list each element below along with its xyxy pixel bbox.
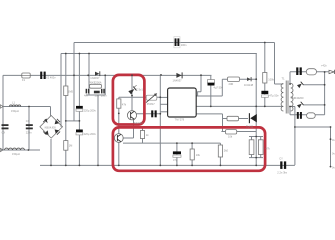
- svg-text:220n: 220n: [26, 131, 32, 135]
- svg-text:1N4148: 1N4148: [244, 83, 254, 87]
- svg-text:CX: CX: [26, 119, 30, 123]
- svg-text:150µH: 150µH: [12, 152, 20, 156]
- svg-text:CX: CX: [2, 131, 6, 135]
- svg-text:20R: 20R: [229, 82, 234, 86]
- svg-text:2.2n 3kv: 2.2n 3kv: [277, 170, 288, 174]
- svg-text:10k: 10k: [228, 134, 233, 138]
- svg-text:220µ 200v: 220µ 200v: [84, 109, 97, 113]
- svg-text:2k0: 2k0: [224, 149, 229, 153]
- svg-text:4µ7 50v: 4µ7 50v: [214, 86, 224, 90]
- svg-text:TL431: TL431: [246, 124, 254, 128]
- svg-text:150µH: 150µH: [11, 109, 19, 113]
- svg-text:C 5v1: C 5v1: [136, 88, 143, 92]
- svg-text:1N4937: 1N4937: [173, 78, 183, 82]
- svg-text:47k: 47k: [122, 102, 127, 106]
- svg-text:CY: CY: [279, 156, 283, 160]
- svg-text:T2C945: T2C945: [134, 121, 144, 125]
- svg-text:1N4937: 1N4937: [90, 76, 100, 80]
- svg-text:KBU4J08: KBU4J08: [45, 125, 57, 129]
- svg-text:+42v: +42v: [321, 63, 327, 67]
- svg-text:100k: 100k: [268, 77, 274, 81]
- svg-text:100n: 100n: [101, 94, 107, 98]
- svg-text:47µ 50v: 47µ 50v: [269, 94, 279, 98]
- svg-text:10k: 10k: [196, 153, 201, 157]
- svg-text:X2 400v: X2 400v: [46, 76, 56, 80]
- svg-text:47k: 47k: [266, 147, 271, 151]
- svg-text:PC817: PC817: [147, 102, 155, 106]
- svg-text:1M5: 1M5: [68, 90, 74, 94]
- svg-text:4n7: 4n7: [84, 94, 89, 98]
- svg-text:TNY278: TNY278: [175, 118, 185, 122]
- svg-text:10µ: 10µ: [95, 94, 100, 98]
- svg-text:1M: 1M: [69, 144, 73, 148]
- svg-text:SMR40200: SMR40200: [291, 96, 305, 100]
- svg-text:47µ: 47µ: [173, 158, 178, 162]
- svg-text:P6KE200A: P6KE200A: [89, 81, 102, 85]
- svg-text:220µ 200v: 220µ 200v: [84, 132, 97, 136]
- svg-text:100n: 100n: [181, 43, 187, 47]
